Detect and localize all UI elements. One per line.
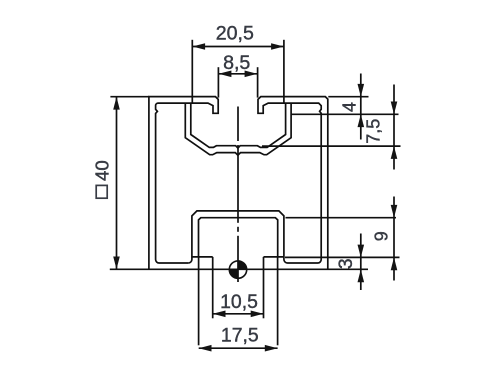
svg-text:10,5: 10,5 xyxy=(220,291,258,313)
svg-text:4: 4 xyxy=(340,102,360,112)
svg-text:8,5: 8,5 xyxy=(223,52,250,74)
svg-text:3: 3 xyxy=(336,258,357,269)
svg-text:7,5: 7,5 xyxy=(363,119,383,144)
svg-text:40: 40 xyxy=(91,160,112,181)
svg-text:17,5: 17,5 xyxy=(221,325,259,347)
svg-text:20,5: 20,5 xyxy=(216,22,254,44)
svg-text:9: 9 xyxy=(372,231,392,241)
